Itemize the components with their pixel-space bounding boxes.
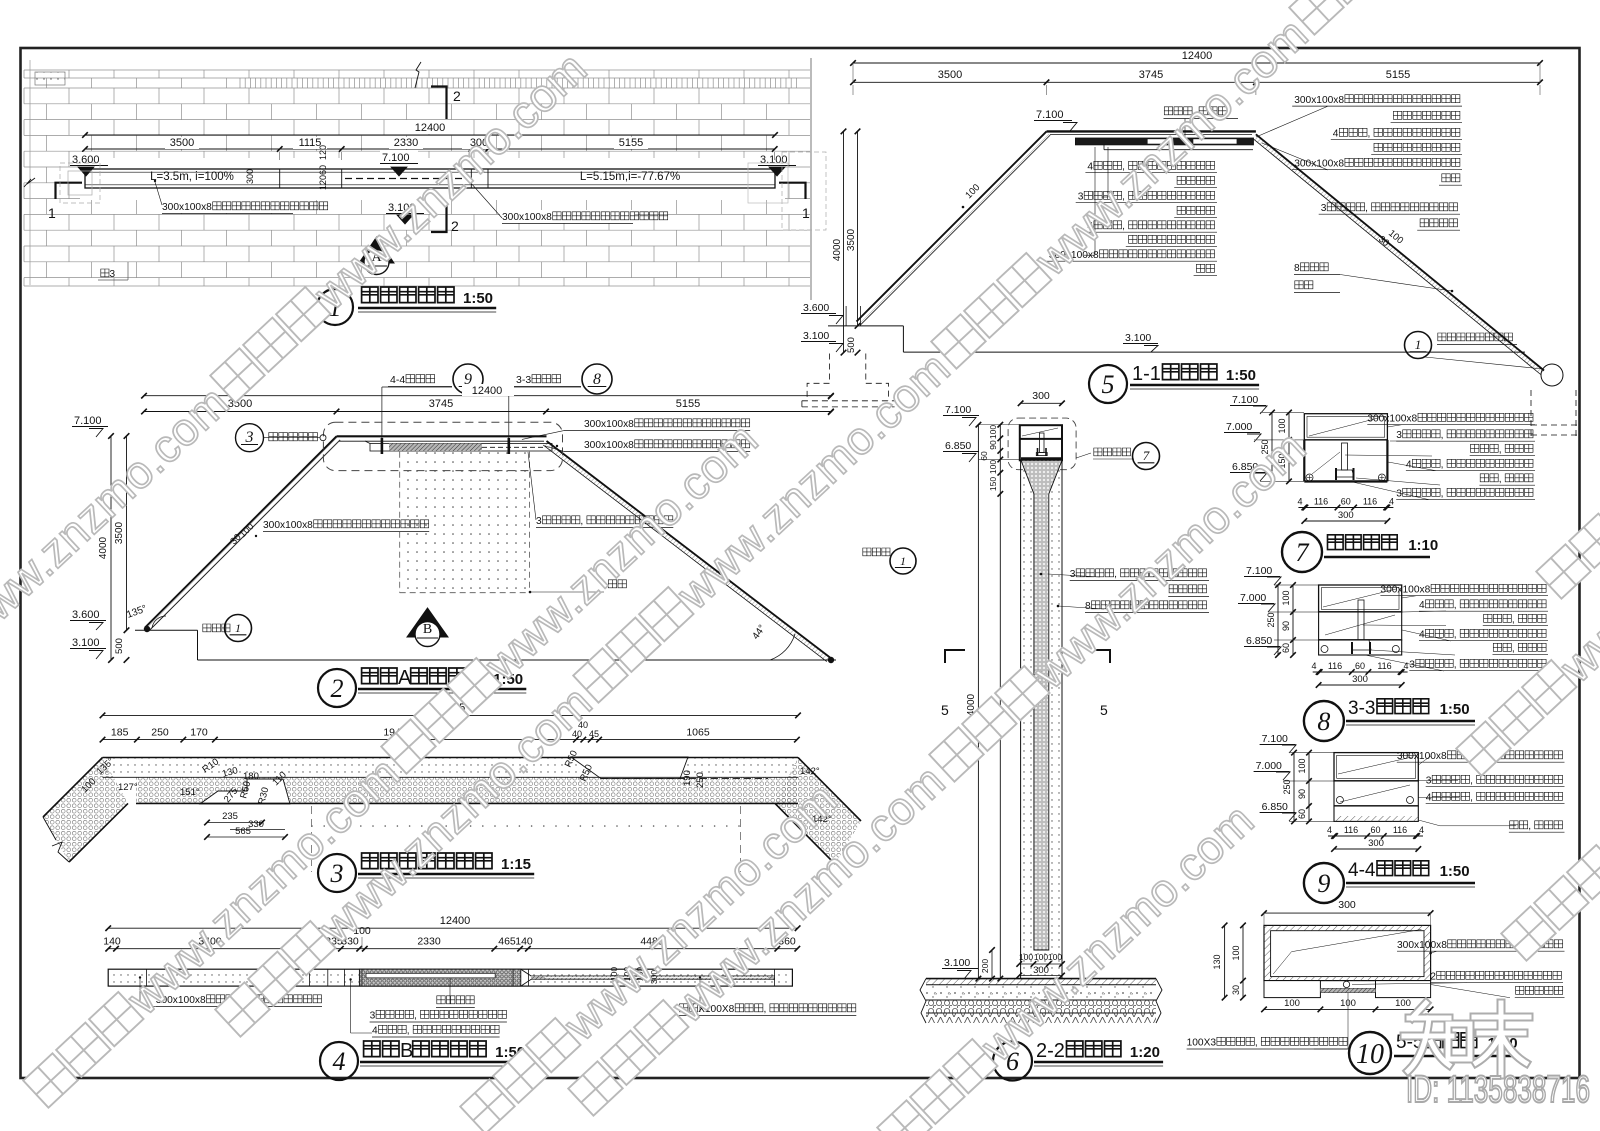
svg-text:2330: 2330: [394, 137, 418, 149]
svg-text:,: ,: [1499, 445, 1502, 456]
svg-text:4: 4: [1406, 460, 1412, 471]
svg-text:200: 200: [980, 959, 990, 973]
svg-text:300x100x8: 300x100x8: [1397, 940, 1447, 951]
det7 box: [1304, 414, 1387, 440]
svg-text:3: 3: [1321, 203, 1327, 214]
svg-text:300: 300: [245, 169, 255, 184]
svg-text:3.600: 3.600: [803, 302, 829, 314]
svg-text:,: ,: [1454, 600, 1457, 611]
svg-text:3500: 3500: [170, 137, 194, 149]
svg-text:116: 116: [1363, 497, 1377, 507]
svg-text:250: 250: [1266, 612, 1276, 627]
plan dims row: [82, 146, 88, 152]
svg-text:1-1: 1-1: [1132, 363, 1161, 385]
svg-text:60: 60: [1281, 643, 1291, 653]
svg-text:250: 250: [695, 772, 706, 788]
svg-text:7.000: 7.000: [1226, 421, 1252, 433]
svg-text:8: 8: [593, 371, 601, 388]
svg-text:10: 10: [1356, 1039, 1384, 1070]
svg-text:300x100x8: 300x100x8: [1380, 585, 1430, 596]
svg-text:190: 190: [682, 770, 693, 786]
svg-text:45: 45: [589, 729, 599, 739]
det10 bottom dims: [1264, 1008, 1431, 1010]
svg-text:,: ,: [763, 1004, 766, 1015]
svg-text:3-3: 3-3: [516, 374, 531, 386]
svg-text:7.100: 7.100: [1036, 109, 1064, 121]
svg-text:4: 4: [333, 1047, 346, 1076]
section 1-1 dark band: [1075, 138, 1253, 145]
svg-text:7.100: 7.100: [1246, 565, 1272, 577]
2-2 long dims: [977, 425, 979, 979]
svg-text:100: 100: [1019, 952, 1033, 962]
svg-text:2-2: 2-2: [1036, 1040, 1065, 1062]
spray label: [608, 580, 616, 588]
svg-text:,: ,: [1441, 460, 1444, 471]
svg-text:7.000: 7.000: [1240, 592, 1266, 604]
svg-text:,: ,: [580, 516, 583, 527]
svg-text:3.100: 3.100: [72, 637, 100, 649]
svg-text:6.850: 6.850: [1246, 635, 1272, 647]
spray dotted area: [400, 452, 530, 593]
title 1-1: [1089, 365, 1127, 403]
svg-text:60: 60: [1297, 809, 1307, 819]
svg-text:3: 3: [1396, 430, 1402, 441]
elevB bar: [108, 969, 792, 986]
svg-text:,: ,: [1512, 615, 1515, 626]
svg-text:1: 1: [48, 205, 56, 221]
svg-text:,: ,: [1441, 489, 1444, 500]
svg-text:60: 60: [1341, 497, 1351, 507]
section cut 2 top: [431, 87, 447, 120]
title elevB: [320, 1042, 358, 1080]
svg-text:7.100: 7.100: [382, 152, 410, 164]
44 deg: [750, 623, 768, 642]
footing dashes left: [60, 163, 100, 203]
view marker B: [407, 608, 448, 637]
plan view brick wall: [24, 70, 810, 286]
elevB rot dims: [609, 967, 619, 981]
dashed scope box: [323, 422, 562, 470]
det7 bottom dims: [1298, 507, 1393, 509]
mist pipe bar plan: [85, 169, 775, 188]
svg-text:3500: 3500: [938, 69, 962, 81]
svg-text:300x100x8: 300x100x8: [263, 520, 313, 531]
svg-text:L=3.5m, i=100%: L=3.5m, i=100%: [150, 171, 234, 183]
svg-text:170: 170: [190, 727, 208, 739]
det9 bottom dims: [1328, 835, 1423, 837]
watermarks: [0, 375, 239, 744]
title det10: [1349, 1032, 1391, 1074]
svg-text:116: 116: [1377, 661, 1391, 671]
grid line: [810, 58, 812, 300]
xia3 label: [101, 269, 109, 277]
svg-text:300x100x8: 300x100x8: [162, 202, 212, 213]
circle 3 detail: [236, 424, 264, 452]
section cut 2 bottom: [431, 205, 447, 232]
svg-text:2: 2: [451, 218, 459, 234]
svg-text:565: 565: [235, 826, 251, 837]
svg-text:60: 60: [318, 165, 328, 175]
cut ticks: [381, 438, 384, 454]
svg-text:3: 3: [1426, 776, 1432, 787]
svg-text:,: ,: [1499, 474, 1502, 485]
svg-text:500: 500: [846, 337, 857, 353]
det10 lower: [1264, 981, 1320, 998]
svg-text:100: 100: [1284, 998, 1300, 1009]
svg-text:3.100: 3.100: [1125, 332, 1151, 344]
svg-text:B: B: [423, 622, 432, 637]
ground line 1-1: [903, 351, 1525, 353]
2-2 dashed box: [1008, 418, 1076, 470]
svg-text:300x100x8: 300x100x8: [502, 212, 552, 223]
svg-text:4: 4: [1311, 661, 1316, 671]
svg-text:3745: 3745: [429, 398, 453, 410]
spray pipe label: [1164, 107, 1172, 115]
svg-text:300x100x8: 300x100x8: [1294, 159, 1344, 170]
level 3.100 mid: [386, 200, 424, 213]
det10 left dims: [1224, 925, 1226, 997]
2-2 detail leader: [1076, 453, 1091, 458]
svg-text:1: 1: [900, 554, 906, 568]
svg-text:5: 5: [1100, 702, 1108, 718]
svg-text:1065: 1065: [686, 727, 710, 739]
det3 small dims: [95, 756, 117, 777]
svg-text:60: 60: [1370, 825, 1380, 835]
svg-text:250: 250: [1282, 779, 1292, 794]
elevB dims: [108, 927, 797, 929]
svg-text:127°: 127°: [118, 782, 138, 793]
2-2 bottom dims: [1019, 963, 1062, 965]
svg-text:140: 140: [103, 936, 121, 948]
svg-text:4: 4: [1419, 825, 1424, 835]
elevA left dims: [126, 436, 128, 630]
svg-text:7.100: 7.100: [1232, 394, 1258, 406]
svg-text:1:50: 1:50: [1440, 701, 1470, 718]
svg-text:4: 4: [1087, 162, 1093, 173]
svg-text:140: 140: [515, 936, 533, 948]
paving strip detail: [35, 72, 65, 85]
svg-text:6.850: 6.850: [945, 440, 971, 452]
znzmo logo: [1412, 1003, 1426, 1018]
slope dims rotated: [963, 182, 982, 201]
svg-text:90: 90: [1297, 789, 1307, 799]
svg-text:2330: 2330: [417, 936, 441, 948]
elevA right foot detail bubble: [863, 548, 871, 556]
svg-text:500: 500: [114, 638, 125, 654]
svg-text:60: 60: [979, 451, 989, 461]
title det8: [1304, 701, 1344, 741]
svg-text:3-3: 3-3: [1348, 698, 1375, 719]
column fix note: [1405, 332, 1432, 359]
svg-text:7.100: 7.100: [945, 404, 971, 416]
svg-text:4: 4: [1327, 825, 1332, 835]
svg-text:116: 116: [1328, 661, 1342, 671]
svg-text:3.600: 3.600: [72, 154, 100, 166]
break mark: [415, 62, 421, 88]
det7 vdims: [1271, 413, 1273, 482]
title 2-2: [993, 1042, 1032, 1081]
svg-text:,: ,: [407, 1026, 410, 1037]
det8 box: [1319, 585, 1402, 612]
svg-text:235: 235: [222, 811, 238, 822]
title det3: [318, 854, 356, 892]
det3 dotted row: [311, 825, 313, 827]
svg-text:100: 100: [988, 425, 998, 439]
svg-text:3: 3: [1396, 489, 1402, 500]
svg-text:4: 4: [1297, 497, 1302, 507]
svg-text:3: 3: [536, 516, 542, 527]
svg-text:1:50: 1:50: [1226, 367, 1256, 384]
section 1-1 outline: [1047, 130, 1256, 132]
svg-text:3: 3: [330, 859, 344, 888]
svg-text:2: 2: [1430, 972, 1436, 983]
svg-text:1:50: 1:50: [463, 290, 493, 307]
svg-text:6.850: 6.850: [1262, 801, 1288, 813]
svg-text:300: 300: [1338, 510, 1354, 521]
title det7: [1282, 532, 1322, 572]
svg-text:100: 100: [1395, 998, 1411, 1009]
svg-text:300x100x8: 300x100x8: [1294, 95, 1344, 106]
elevA dims: [144, 395, 831, 397]
svg-text:,: ,: [1255, 1038, 1258, 1049]
elevA outline: [337, 435, 547, 437]
2-2 head box: [1020, 425, 1062, 460]
svg-text:300x100x8: 300x100x8: [1367, 414, 1417, 425]
detail bubble left foot: [203, 624, 211, 632]
svg-text:12400: 12400: [440, 915, 471, 927]
svg-text:8: 8: [1317, 707, 1330, 736]
135 deg: [125, 603, 148, 620]
svg-text:4: 4: [1403, 661, 1408, 671]
svg-text:100: 100: [1034, 952, 1048, 962]
svg-text:90: 90: [988, 440, 998, 450]
svg-text:,: ,: [1441, 430, 1444, 441]
svg-text:116: 116: [1344, 825, 1358, 835]
svg-text:,: ,: [1454, 660, 1457, 671]
det10 box: [1264, 925, 1431, 980]
svg-text:4: 4: [1419, 600, 1425, 611]
svg-text:300x100x8: 300x100x8: [584, 440, 634, 451]
svg-text:,: ,: [1470, 776, 1473, 787]
level 3.600: [70, 152, 106, 165]
svg-text:120: 120: [318, 175, 328, 190]
svg-text:1:10: 1:10: [1408, 537, 1438, 554]
svg-text:100: 100: [988, 460, 998, 474]
svg-text:,: ,: [1454, 630, 1457, 641]
svg-text:,: ,: [1512, 644, 1515, 655]
section cut 1 right: [779, 183, 806, 199]
svg-text:7.100: 7.100: [74, 415, 102, 427]
level 7.100: [380, 150, 418, 163]
svg-text:3: 3: [370, 1011, 376, 1022]
title elevA: [318, 669, 356, 707]
svg-text:5155: 5155: [1386, 69, 1410, 81]
svg-text:4: 4: [1333, 129, 1339, 140]
section 1-1 dims: [853, 62, 1540, 64]
svg-text:4: 4: [1389, 497, 1394, 507]
svg-text:4000: 4000: [832, 238, 843, 261]
det9 box: [1334, 753, 1418, 781]
label steel plate plan: [500, 210, 635, 223]
detail10: [1264, 912, 1431, 914]
det8 bottom dims: [1313, 671, 1408, 673]
footing dashes right: [782, 152, 826, 230]
svg-text:12400: 12400: [1182, 50, 1213, 62]
2-2 head dims: [999, 425, 1001, 494]
5 cut markers: [945, 650, 965, 663]
svg-text:3500: 3500: [846, 228, 857, 251]
svg-text:100: 100: [1281, 590, 1291, 605]
svg-text:90: 90: [1281, 621, 1291, 631]
svg-text:,: ,: [414, 1011, 417, 1022]
svg-text:,: ,: [1368, 129, 1371, 140]
right foot circle: [1541, 364, 1563, 386]
svg-text:300x100x8: 300x100x8: [584, 419, 634, 430]
svg-text:3745: 3745: [1139, 69, 1163, 81]
svg-text:120: 120: [318, 145, 328, 160]
svg-text:7: 7: [1296, 538, 1310, 567]
foot columns: [845, 306, 847, 326]
1-1 left vertical dims: [843, 131, 845, 352]
svg-text:,: ,: [1528, 821, 1531, 832]
svg-text:B: B: [400, 1040, 413, 1062]
svg-text:8: 8: [1294, 263, 1300, 274]
svg-text:2: 2: [453, 88, 461, 104]
svg-text:12400: 12400: [472, 385, 503, 397]
elevA hatched bar: [370, 444, 552, 452]
svg-text:3.600: 3.600: [72, 609, 100, 621]
svg-text:,: ,: [1365, 203, 1368, 214]
svg-text:300: 300: [1338, 899, 1356, 911]
svg-text:3.100: 3.100: [944, 957, 970, 969]
svg-text:250: 250: [151, 727, 169, 739]
svg-text:100: 100: [1231, 945, 1241, 960]
svg-text:3: 3: [110, 269, 116, 280]
svg-text:5155: 5155: [676, 398, 700, 410]
svg-text:4-4: 4-4: [1348, 860, 1376, 881]
svg-text:1: 1: [235, 621, 241, 635]
svg-text:1:20: 1:20: [1130, 1044, 1160, 1061]
svg-text:12400: 12400: [415, 122, 446, 134]
svg-text:5155: 5155: [619, 137, 643, 149]
label steel tube plan: [160, 200, 295, 213]
svg-text:116: 116: [1393, 825, 1407, 835]
svg-text:7: 7: [1143, 448, 1150, 463]
svg-text:100X3: 100X3: [1187, 1038, 1217, 1049]
svg-text:130: 130: [1212, 954, 1222, 969]
svg-text:150: 150: [988, 477, 998, 491]
svg-text:3: 3: [245, 429, 254, 446]
svg-text:1: 1: [1415, 337, 1422, 352]
svg-text:ID: 1135838716: ID: 1135838716: [1406, 1069, 1590, 1111]
svg-text:100: 100: [1297, 758, 1307, 773]
break mark left bar: [24, 178, 35, 187]
2-2 shaft: [1021, 460, 1062, 978]
svg-text:L=5.15m,i=-77.67%: L=5.15m,i=-77.67%: [580, 171, 680, 183]
title plan: [317, 289, 353, 325]
section cut 1 left: [56, 183, 83, 199]
svg-text:1: 1: [802, 205, 810, 221]
svg-text:300: 300: [1368, 838, 1384, 849]
svg-text:7.100: 7.100: [1262, 733, 1288, 745]
svg-text:151°: 151°: [180, 787, 200, 798]
svg-text:1:50: 1:50: [1440, 863, 1470, 880]
svg-text:300x100x8: 300x100x8: [1397, 751, 1447, 762]
svg-text:30: 30: [1231, 985, 1241, 995]
plan dim 12400: [405, 120, 460, 134]
svg-text:,: ,: [1470, 793, 1473, 804]
svg-text:7.000: 7.000: [1256, 760, 1282, 772]
svg-text:465: 465: [498, 936, 516, 948]
svg-text:60: 60: [1355, 661, 1365, 671]
svg-text:3: 3: [1070, 569, 1076, 580]
svg-text:180: 180: [243, 771, 259, 782]
elevA ground: [135, 629, 198, 631]
svg-text:5: 5: [941, 702, 949, 718]
svg-text:4: 4: [372, 1026, 378, 1037]
view marker A: [359, 237, 394, 263]
svg-text:300: 300: [1352, 674, 1368, 685]
svg-text:185: 185: [111, 727, 129, 739]
svg-text:1:15: 1:15: [501, 856, 531, 873]
svg-text:2: 2: [331, 674, 344, 703]
svg-text:3.100: 3.100: [803, 330, 829, 342]
svg-text:300: 300: [1032, 390, 1050, 402]
svg-text:3.100: 3.100: [760, 154, 788, 166]
footing dashed 1-1: [829, 354, 831, 384]
svg-text:4-4: 4-4: [390, 374, 405, 386]
title det9: [1304, 863, 1344, 903]
det3 lower dims: [207, 822, 262, 824]
svg-text:9: 9: [1317, 869, 1330, 898]
det3 dims top: [103, 714, 799, 716]
svg-text:5: 5: [1102, 370, 1115, 399]
svg-text:4: 4: [1426, 793, 1432, 804]
200 dim: [991, 950, 993, 979]
det3 band: [103, 758, 799, 778]
svg-text:116: 116: [1314, 497, 1328, 507]
2-2 top dim: [1021, 402, 1062, 404]
